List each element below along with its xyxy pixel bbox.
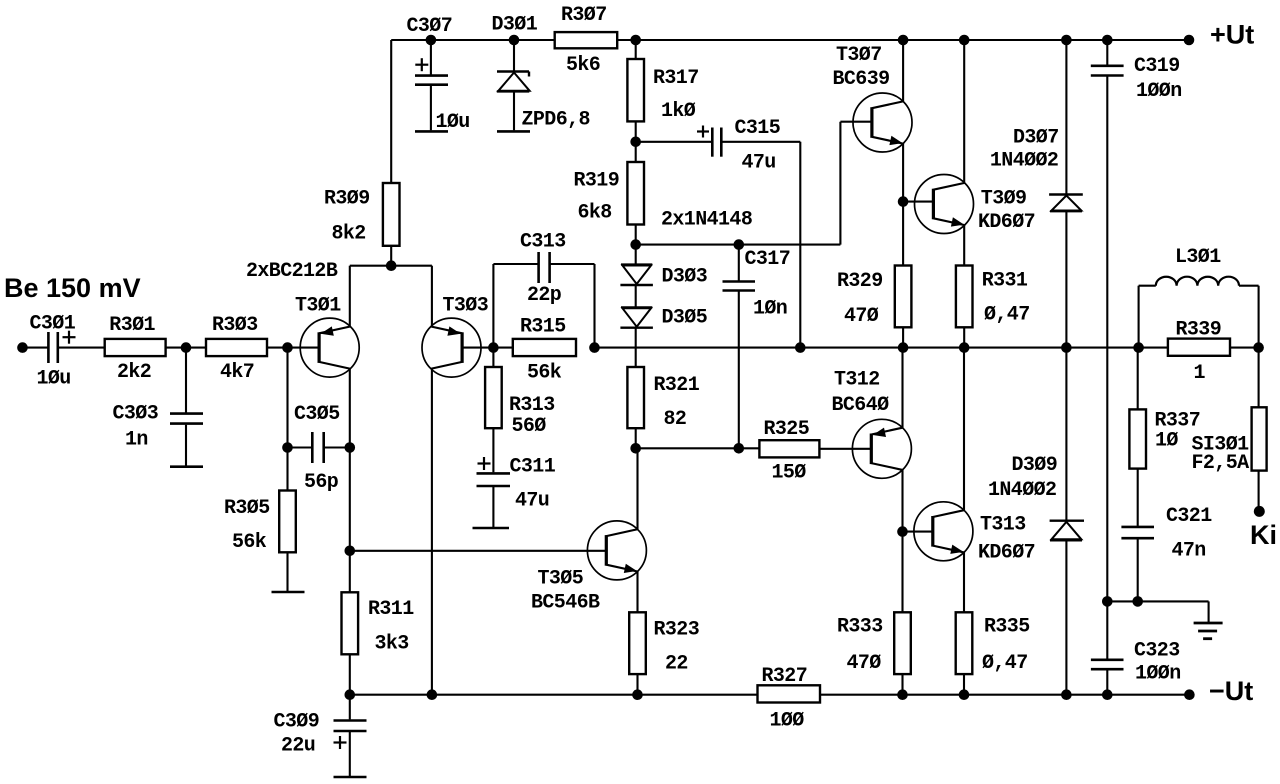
svg-text:47Ø: 47Ø xyxy=(847,652,882,675)
node +Ut terminal xyxy=(1184,35,1195,46)
diode D305 xyxy=(621,306,652,308)
wire ground link xyxy=(1107,600,1208,602)
svg-text:R333: R333 xyxy=(837,616,883,639)
svg-text:5k6: 5k6 xyxy=(566,54,600,77)
svg-text:82: 82 xyxy=(664,408,687,431)
svg-text:47u: 47u xyxy=(515,490,549,513)
svg-text:KD6Ø7: KD6Ø7 xyxy=(978,211,1035,234)
wire T309 emitter down xyxy=(963,225,965,265)
node T303 collector bottom xyxy=(427,689,438,700)
svg-text:D3Ø3: D3Ø3 xyxy=(662,266,708,289)
transistor T301 xyxy=(300,318,359,377)
wire R331 to rail xyxy=(963,327,965,347)
svg-text:T3Ø7: T3Ø7 xyxy=(836,44,882,67)
node T309 base junction xyxy=(898,196,909,207)
svg-text:C3Ø3: C3Ø3 xyxy=(113,403,159,426)
svg-text:R323: R323 xyxy=(654,619,700,642)
svg-text:15Ø: 15Ø xyxy=(772,462,807,485)
node R323 bottom xyxy=(632,689,643,700)
svg-text:4k7: 4k7 xyxy=(220,361,254,384)
svg-text:R319: R319 xyxy=(574,170,620,193)
resistor R303 xyxy=(206,339,267,356)
node R331 rail xyxy=(959,342,970,353)
svg-text:C319: C319 xyxy=(1134,55,1180,78)
svg-text:1Øn: 1Øn xyxy=(753,298,787,321)
node C303 tap xyxy=(181,342,192,353)
svg-text:C3Ø5: C3Ø5 xyxy=(294,403,340,426)
wire base node to R311 xyxy=(349,551,351,593)
svg-text:R311: R311 xyxy=(368,598,414,621)
wire rail to R339 right xyxy=(1230,347,1259,349)
svg-text:BC546B: BC546B xyxy=(531,592,600,615)
svg-text:1kØ: 1kØ xyxy=(661,100,696,123)
svg-text:56p: 56p xyxy=(304,471,339,494)
node gnd left xyxy=(1102,596,1113,607)
capacitor C319 xyxy=(1106,40,1108,65)
resistor R305 xyxy=(286,448,288,491)
svg-text:R327: R327 xyxy=(762,665,808,688)
svg-text:R321: R321 xyxy=(654,374,700,397)
node R315 right xyxy=(589,342,600,353)
node R321/T305 collector xyxy=(630,443,641,454)
node C317 bottom xyxy=(734,443,745,454)
capacitor C309 xyxy=(349,695,351,720)
node R311 bottom xyxy=(345,689,356,700)
svg-text:1Ø: 1Ø xyxy=(1155,430,1178,453)
transistor T307 xyxy=(853,93,912,152)
node R339 right xyxy=(1253,342,1264,353)
resistor R337 xyxy=(1137,348,1139,410)
svg-text:R3Ø7: R3Ø7 xyxy=(561,4,607,27)
transistor T309 xyxy=(915,175,974,234)
resistor R339 xyxy=(1168,339,1230,356)
svg-text:L3Ø1: L3Ø1 xyxy=(1175,246,1221,269)
svg-text:R3Ø9: R3Ø9 xyxy=(324,188,370,211)
wire T303 emitter up xyxy=(431,266,433,327)
svg-text:1: 1 xyxy=(1194,362,1206,385)
svg-text:1ØØn: 1ØØn xyxy=(1136,80,1182,103)
svg-text:C311: C311 xyxy=(510,456,556,479)
wire T301 collector down xyxy=(349,369,351,448)
node C319 top xyxy=(1102,35,1113,46)
capacitor C307 xyxy=(430,40,432,75)
wire T309 collector up xyxy=(963,40,965,183)
resistor R301 xyxy=(105,339,166,356)
wire R303-T301 base xyxy=(267,347,319,349)
wire R305 ground lead xyxy=(286,552,288,591)
capacitor C305 xyxy=(288,446,312,448)
wire T313 collector up xyxy=(963,348,965,511)
node R317 top xyxy=(630,35,641,46)
node R329 rail xyxy=(898,342,909,353)
svg-text:56k: 56k xyxy=(527,362,562,385)
wire C305 left drop xyxy=(286,348,288,448)
svg-text:C313: C313 xyxy=(520,231,566,254)
wire R309 to node xyxy=(390,246,392,266)
transistor T312 xyxy=(852,419,911,478)
svg-text:R3Ø1: R3Ø1 xyxy=(109,314,155,337)
wire T312 emitter up xyxy=(901,348,903,428)
svg-text:T3Ø3: T3Ø3 xyxy=(443,295,489,318)
wire D305 to R321 xyxy=(635,328,637,367)
wire R335 to rail xyxy=(963,674,965,695)
resistor R335 xyxy=(956,612,973,674)
svg-text:Ki: Ki xyxy=(1250,520,1277,550)
svg-text:D3Ø9: D3Ø9 xyxy=(1012,454,1058,477)
wire top rail xyxy=(391,39,1189,41)
node C317 tap xyxy=(734,239,745,250)
wire T307 emitter down xyxy=(902,144,904,266)
node T309 collector rail xyxy=(959,35,970,46)
wire bottom rail right xyxy=(820,694,1189,696)
svg-text:8k2: 8k2 xyxy=(332,223,366,246)
svg-text:2k2: 2k2 xyxy=(117,361,151,384)
svg-text:56Ø: 56Ø xyxy=(512,415,547,438)
resistor R319 xyxy=(627,162,644,225)
svg-text:ZPD6,8: ZPD6,8 xyxy=(522,109,590,132)
svg-text:C3Ø9: C3Ø9 xyxy=(274,711,320,734)
svg-text:6k8: 6k8 xyxy=(578,202,612,225)
wire fuse to Ki xyxy=(1258,471,1260,507)
svg-text:56k: 56k xyxy=(232,531,267,554)
wire T301c to T305 base node xyxy=(349,448,351,551)
wire T312 collector down xyxy=(901,470,903,532)
capacitor C303 xyxy=(185,348,187,413)
svg-text:22u: 22u xyxy=(281,735,315,758)
svg-text:1Øu: 1Øu xyxy=(436,111,470,134)
wire T307 collector up xyxy=(902,40,904,101)
svg-text:22: 22 xyxy=(665,653,688,676)
fuse SI301 xyxy=(1258,348,1260,408)
node R317/R319/C315 xyxy=(630,137,641,148)
wire T305 collector up xyxy=(636,448,638,529)
svg-text:R331: R331 xyxy=(982,270,1028,293)
node T305 base tap xyxy=(345,546,356,557)
svg-text:C323: C323 xyxy=(1134,640,1180,663)
svg-text:1ØØn: 1ØØn xyxy=(1135,663,1181,686)
node D309 bottom xyxy=(1061,689,1072,700)
node T301 base junction xyxy=(282,342,293,353)
svg-text:BC64Ø: BC64Ø xyxy=(832,394,890,417)
resistor R311 xyxy=(342,592,359,654)
svg-text:R313: R313 xyxy=(509,394,555,417)
node C323 bottom xyxy=(1102,689,1113,700)
capacitor C317 xyxy=(738,245,740,281)
node input terminal xyxy=(17,342,28,353)
node bootstrap on rail xyxy=(795,342,806,353)
wire R333 to rail xyxy=(901,674,903,695)
resistor R333 xyxy=(894,612,911,674)
wire R329 to rail xyxy=(902,327,904,347)
svg-text:F2,5A: F2,5A xyxy=(1192,452,1250,475)
node gnd right xyxy=(1132,596,1143,607)
svg-text:1n: 1n xyxy=(125,429,148,452)
wire output rail xyxy=(595,347,1168,349)
svg-text:2xBC212B: 2xBC212B xyxy=(246,260,338,283)
node -Ut terminal xyxy=(1184,689,1195,700)
svg-text:3k3: 3k3 xyxy=(375,633,409,656)
wire bottom rail left xyxy=(350,694,758,696)
wire D303-D305 xyxy=(635,285,637,307)
node Ki terminal xyxy=(1254,506,1265,517)
svg-text:R315: R315 xyxy=(520,316,566,339)
capacitor C311 xyxy=(492,428,494,472)
node C305 left xyxy=(282,442,293,453)
svg-text:D3Ø5: D3Ø5 xyxy=(662,307,708,330)
svg-text:Ø,47: Ø,47 xyxy=(984,304,1030,327)
wire R321 to node xyxy=(635,428,637,448)
resistor R327 xyxy=(758,685,821,702)
svg-text:R339: R339 xyxy=(1176,319,1222,342)
transistor T305 xyxy=(587,521,646,580)
resistor R329 xyxy=(895,266,912,328)
inductor L301 xyxy=(1138,286,1140,348)
wire T305 base xyxy=(350,550,606,552)
svg-text:R3Ø5: R3Ø5 xyxy=(224,497,270,520)
wire C315 bootstrap drop xyxy=(799,142,801,348)
svg-text:C321: C321 xyxy=(1166,505,1212,528)
node T303 base junction xyxy=(488,342,499,353)
svg-text:T312: T312 xyxy=(834,369,880,392)
svg-text:C3Ø1: C3Ø1 xyxy=(30,313,76,336)
svg-text:1N4ØØ2: 1N4ØØ2 xyxy=(988,479,1056,502)
transistor T313 xyxy=(914,502,973,561)
wire R301-R303 xyxy=(166,347,206,349)
svg-text:R329: R329 xyxy=(837,270,883,293)
svg-text:1Øu: 1Øu xyxy=(37,368,71,391)
svg-text:22p: 22p xyxy=(527,284,562,307)
node T313 base junction xyxy=(897,526,908,537)
ground bar R305 xyxy=(272,591,305,594)
node R333 bottom xyxy=(897,689,908,700)
resistor R321 xyxy=(627,367,644,428)
resistor R313 xyxy=(492,348,494,367)
wire T312 base xyxy=(819,448,871,450)
svg-text:2x1N4148: 2x1N4148 xyxy=(661,209,752,232)
svg-text:R317: R317 xyxy=(653,67,699,90)
resistor R309 xyxy=(383,183,400,246)
diode D309 xyxy=(1065,348,1067,520)
resistor R307 xyxy=(555,32,618,48)
capacitor C301 xyxy=(47,332,50,363)
wire T313 emitter down xyxy=(963,552,965,612)
svg-text:47u: 47u xyxy=(742,152,776,175)
svg-text:Be 150 mV: Be 150 mV xyxy=(4,273,141,303)
diode D307 xyxy=(1065,40,1067,194)
node R309/T301/T303 tail xyxy=(386,260,397,271)
svg-text:C3Ø7: C3Ø7 xyxy=(407,15,453,38)
capacitor C315 xyxy=(636,141,713,143)
wire T305 emitter down xyxy=(636,572,638,613)
svg-text:−Ut: −Ut xyxy=(1209,676,1253,706)
transistor T303 xyxy=(422,318,481,377)
resistor R331 xyxy=(956,266,973,328)
capacitor C321 xyxy=(1137,469,1139,526)
svg-text:1N4ØØ2: 1N4ØØ2 xyxy=(990,150,1058,173)
svg-text:BC639: BC639 xyxy=(833,68,890,91)
svg-text:D3Ø1: D3Ø1 xyxy=(492,14,538,37)
svg-text:T3Ø9: T3Ø9 xyxy=(981,188,1027,211)
node R335 bottom xyxy=(959,689,970,700)
node T307 collector rail xyxy=(898,35,909,46)
node bias top xyxy=(630,239,641,250)
svg-text:C315: C315 xyxy=(735,117,781,140)
resistor R323 xyxy=(629,612,646,674)
svg-text:R325: R325 xyxy=(764,418,810,441)
svg-text:+Ut: +Ut xyxy=(1210,20,1254,50)
svg-text:T313: T313 xyxy=(980,514,1026,537)
wire R311 to bottom rail xyxy=(349,654,351,694)
capacitor C313 xyxy=(492,264,494,348)
svg-text:R3Ø3: R3Ø3 xyxy=(212,314,258,337)
node D301 tap xyxy=(509,35,520,46)
wire T309 base xyxy=(903,201,933,203)
diode D303 xyxy=(621,263,652,265)
svg-text:T3Ø1: T3Ø1 xyxy=(295,295,341,318)
svg-text:R335: R335 xyxy=(984,616,1030,639)
wire bias to T307 base xyxy=(636,244,841,246)
svg-text:C317: C317 xyxy=(745,248,791,271)
wire R323 to bottom rail xyxy=(636,674,638,695)
svg-text:D3Ø7: D3Ø7 xyxy=(1013,126,1059,149)
svg-text:1ØØ: 1ØØ xyxy=(770,710,805,733)
zener D301 xyxy=(513,40,515,71)
wire T303 collector down xyxy=(431,369,433,695)
svg-text:47n: 47n xyxy=(1172,540,1206,563)
node C305 right xyxy=(345,442,356,453)
resistor R317 xyxy=(635,40,637,59)
node D307/D309 rail xyxy=(1061,342,1072,353)
node C307 tap xyxy=(426,35,437,46)
wire T313 base xyxy=(903,531,933,533)
capacitor C323 xyxy=(1106,601,1108,658)
wire R309 feed xyxy=(390,40,392,183)
node D307 top xyxy=(1061,35,1072,46)
resistor R315 xyxy=(513,339,576,356)
node Zobel rail xyxy=(1133,342,1144,353)
wire T303 base xyxy=(461,347,513,349)
wire VAS node xyxy=(636,447,760,449)
svg-text:KD6Ø7: KD6Ø7 xyxy=(978,542,1035,565)
svg-text:T3Ø5: T3Ø5 xyxy=(538,568,584,591)
resistor R325 xyxy=(759,440,819,457)
svg-text:47Ø: 47Ø xyxy=(844,305,879,328)
wire T312 col to R333 xyxy=(901,532,903,613)
wire T301 emitter up xyxy=(349,266,351,327)
ground symbol xyxy=(1194,622,1223,625)
svg-text:Ø,47: Ø,47 xyxy=(982,652,1028,675)
